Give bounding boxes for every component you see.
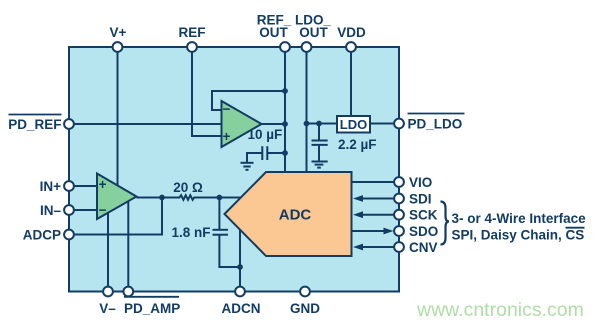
svg-text:V–: V– [99, 301, 116, 316]
ground for C3 [312, 162, 328, 168]
capacitor C1 1.8nF [213, 198, 241, 268]
pin circles top: V+, REF, REF_OUT, LDO_OUT, VDD [113, 42, 356, 52]
wire IN+ [69, 185, 97, 187]
junction node dots [159, 88, 322, 270]
svg-text:ADCP: ADCP [23, 227, 61, 242]
arrow SDO [352, 228, 394, 235]
wire REF [192, 47, 222, 136]
svg-text:+: + [223, 129, 231, 144]
svg-text:IN–: IN– [40, 203, 62, 218]
wire ADCN [239, 230, 241, 292]
svg-text:SCK: SCK [409, 208, 438, 223]
svg-text:−: − [99, 202, 107, 217]
wire node to ADC [219, 197, 241, 199]
ADC block [225, 172, 352, 256]
svg-text:SDO: SDO [409, 224, 438, 239]
arrow SDI [353, 195, 394, 202]
svg-text:SPI, Daisy Chain, CS: SPI, Daisy Chain, CS [452, 228, 585, 243]
svg-text:OUT: OUT [259, 25, 288, 40]
capacitor C3 2.2uF [312, 124, 328, 162]
wire LDO input left [307, 123, 338, 125]
svg-text:+: + [99, 177, 107, 192]
op-amp U2 driver [97, 174, 137, 220]
wire PD_AMP [127, 201, 129, 292]
wire LDO to PD_LDO [370, 123, 394, 125]
wire VIO [352, 181, 394, 183]
svg-text:CNV: CNV [409, 240, 438, 255]
capacitor C2 10uF [247, 146, 285, 163]
wire IN- [69, 209, 97, 211]
svg-text:PD_REF: PD_REF [8, 117, 61, 132]
pin circles right: PD_LDO, VIO, SDI, SCK, SDO, CNV [394, 119, 404, 252]
svg-text:LDO: LDO [340, 117, 367, 132]
resistor R1 20 ohm [162, 195, 219, 200]
svg-text:2.2 µF: 2.2 µF [338, 137, 377, 152]
wire LDO_OUT [306, 47, 308, 173]
op-amp U1 reference buffer [222, 101, 262, 147]
wire ADCP feedback [69, 198, 162, 235]
LDO block [337, 116, 370, 133]
svg-text:IN+: IN+ [40, 179, 62, 194]
svg-text:PD_LDO: PD_LDO [408, 116, 463, 131]
main block outline [69, 47, 399, 292]
svg-text:3- or 4-Wire Interface: 3- or 4-Wire Interface [452, 211, 587, 226]
pin circles left: PD_REF, IN+, IN-, ADCP [64, 119, 74, 239]
svg-text:GND: GND [290, 301, 320, 316]
svg-text:−: − [223, 101, 231, 116]
svg-text:ADC: ADC [279, 207, 312, 224]
wires group [69, 47, 394, 292]
wire V+ [117, 47, 119, 185]
wire VDD [350, 47, 352, 116]
wire REF_OUT [284, 47, 286, 173]
svg-text:SDI: SDI [409, 191, 432, 206]
ground for C2 [241, 163, 254, 170]
svg-text:OUT: OUT [299, 25, 328, 40]
svg-text:VDD: VDD [337, 25, 366, 40]
svg-text:V+: V+ [110, 25, 127, 40]
wire V- [107, 213, 109, 292]
wire PD_REF [69, 123, 222, 125]
wire driver output [137, 197, 163, 199]
svg-text:REF: REF [179, 25, 206, 40]
svg-text:PD_AMP: PD_AMP [124, 301, 180, 316]
svg-text:VIO: VIO [409, 175, 432, 190]
arrow SCK [353, 211, 394, 218]
wire ref-amp output [262, 123, 286, 125]
svg-text:www.cntronics.com: www.cntronics.com [416, 299, 584, 321]
svg-text:20 Ω: 20 Ω [173, 180, 203, 195]
brace interface group [441, 202, 450, 245]
svg-text:ADCN: ADCN [222, 301, 261, 316]
svg-text:1.8 nF: 1.8 nF [172, 225, 211, 240]
arrow CNV [353, 244, 394, 251]
pin circles bottom: V-, PD_AMP, ADCN, GND [103, 287, 310, 297]
wire ref-amp feedback [212, 91, 285, 110]
